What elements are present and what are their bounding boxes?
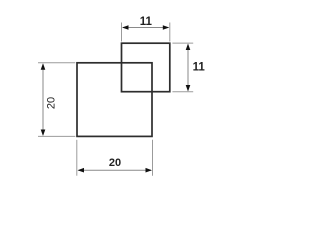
extension line left-bottom (for dim 20): [38, 135, 75, 137]
dimension line 11 right: [186, 44, 191, 92]
dimension line 20 bottom: [78, 168, 153, 173]
large square 20x20: [77, 63, 152, 137]
svg-text:20: 20: [45, 97, 57, 109]
svg-text:11: 11: [140, 16, 153, 28]
extension line bottom-right (for dim 20): [152, 140, 154, 176]
extension line top-left (for dim 11): [121, 23, 123, 42]
extension line right-top (for dim 11): [172, 42, 193, 44]
extension line right-bottom (for dim 11): [172, 91, 193, 93]
dimension line 20 left: [41, 63, 46, 136]
small square 11x11: [122, 43, 170, 91]
extension line top-right (for dim 11): [169, 23, 171, 42]
svg-text:20: 20: [109, 157, 121, 169]
svg-text:11: 11: [193, 62, 206, 74]
extension line bottom-left (for dim 20): [76, 140, 78, 176]
extension line left-top (for dim 20): [38, 62, 75, 64]
dimension line 11 top: [122, 25, 169, 30]
